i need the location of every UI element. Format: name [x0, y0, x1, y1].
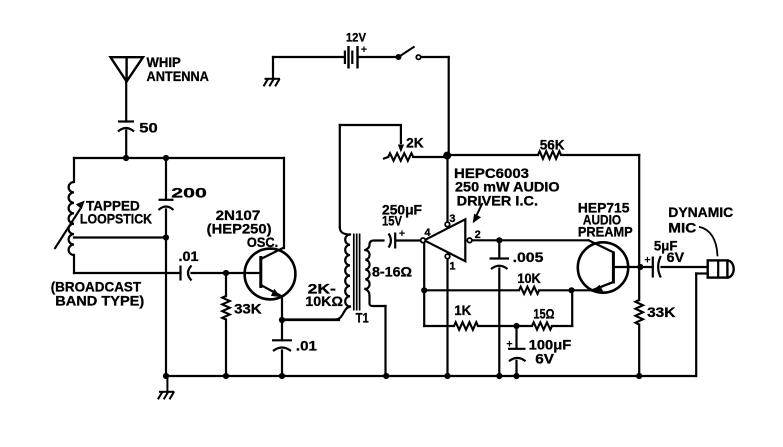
- svg-text:12V: 12V: [346, 31, 366, 45]
- svg-text:BAND TYPE): BAND TYPE): [55, 294, 144, 309]
- svg-text:2K: 2K: [406, 135, 424, 150]
- svg-text:200: 200: [171, 185, 207, 200]
- svg-text:+: +: [644, 254, 650, 266]
- svg-text:33K: 33K: [234, 301, 262, 316]
- svg-text:10KΩ: 10KΩ: [305, 294, 343, 309]
- svg-text:15Ω: 15Ω: [533, 307, 554, 322]
- svg-text:4: 4: [424, 227, 431, 239]
- svg-text:(BROADCAST: (BROADCAST: [51, 280, 142, 295]
- svg-text:250 mW AUDIO: 250 mW AUDIO: [455, 179, 560, 194]
- svg-text:.01: .01: [296, 339, 317, 354]
- svg-text:10K: 10K: [517, 271, 540, 286]
- svg-text:33K: 33K: [647, 305, 676, 320]
- svg-text:.01: .01: [179, 249, 199, 264]
- svg-text:56K: 56K: [540, 138, 565, 153]
- svg-text:3: 3: [449, 213, 455, 225]
- svg-text:6V: 6V: [667, 250, 684, 265]
- svg-text:LOOPSTICK: LOOPSTICK: [80, 211, 152, 226]
- svg-text:MIC: MIC: [668, 221, 696, 236]
- svg-text:2: 2: [475, 229, 481, 241]
- svg-text:DRIVER I.C.: DRIVER I.C.: [457, 194, 538, 209]
- svg-text:8-16Ω: 8-16Ω: [372, 265, 412, 280]
- svg-text:+: +: [361, 44, 367, 56]
- svg-text:1K: 1K: [454, 303, 471, 318]
- svg-text:50: 50: [139, 121, 158, 136]
- svg-text:DYNAMIC: DYNAMIC: [668, 205, 733, 220]
- svg-text:.005: .005: [513, 250, 544, 265]
- svg-text:+: +: [506, 338, 512, 350]
- svg-text:6V: 6V: [535, 352, 554, 367]
- svg-text:100μF: 100μF: [529, 338, 572, 353]
- svg-text:+: +: [399, 228, 405, 240]
- svg-text:WHIP: WHIP: [147, 55, 181, 70]
- svg-text:15V: 15V: [382, 214, 402, 229]
- svg-text:PREAMP: PREAMP: [578, 224, 633, 239]
- svg-text:T1: T1: [356, 310, 369, 325]
- svg-text:1: 1: [449, 261, 455, 273]
- svg-text:OSC.: OSC.: [247, 235, 278, 250]
- svg-text:ANTENNA: ANTENNA: [147, 69, 210, 84]
